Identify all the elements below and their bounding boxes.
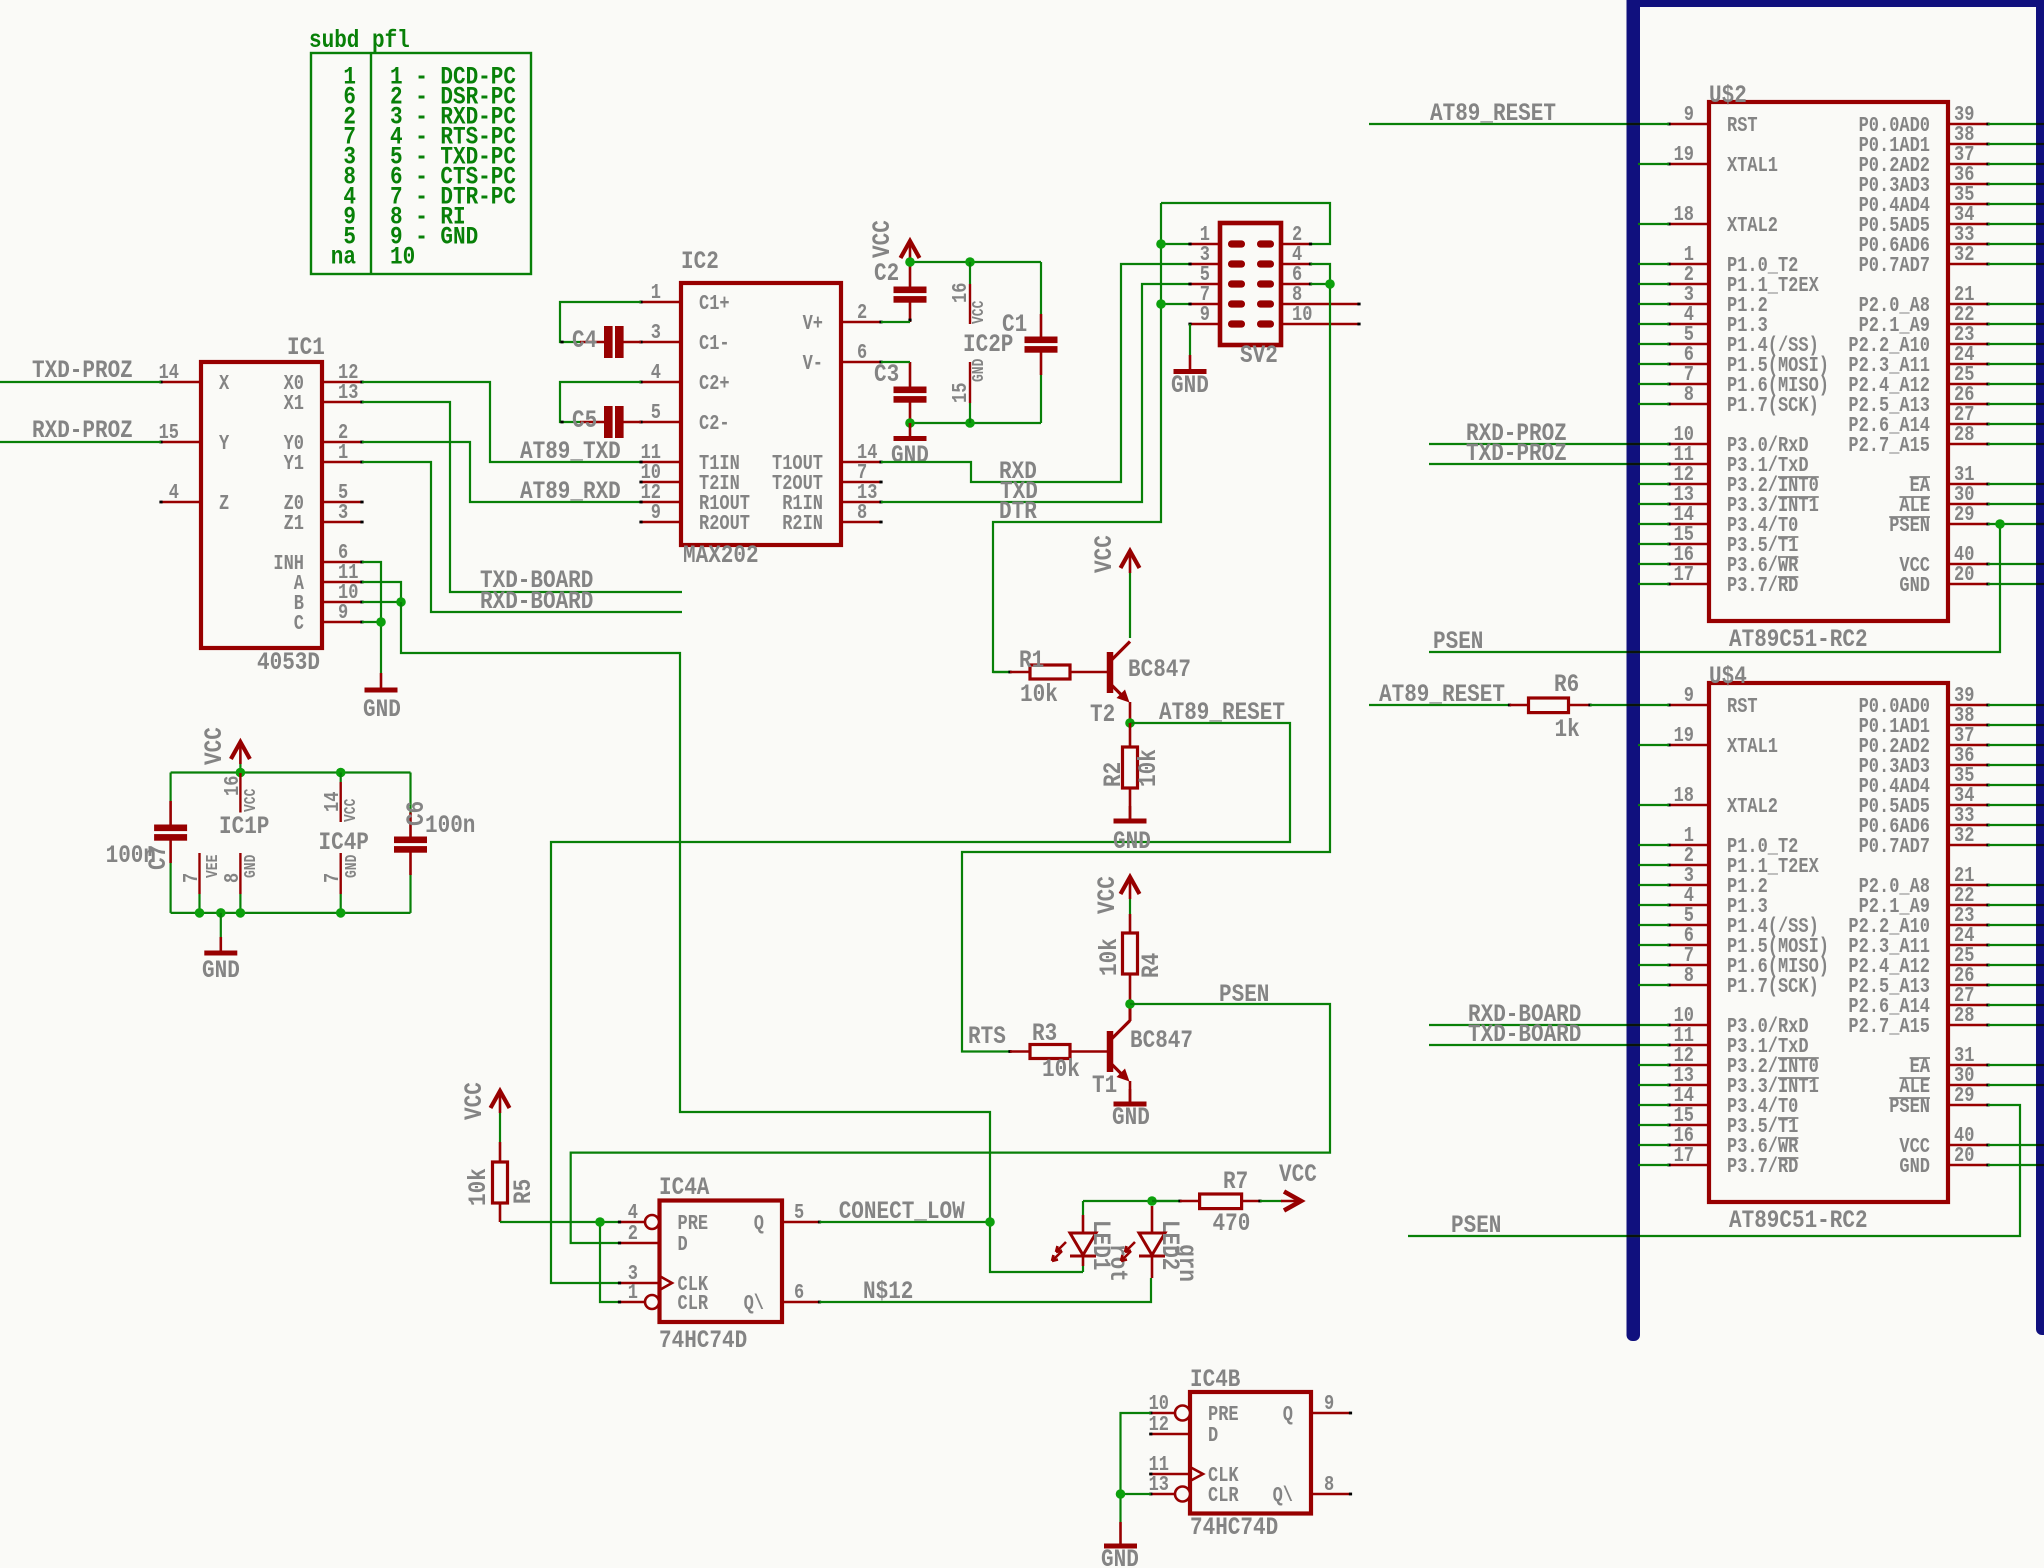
svg-text:C1-: C1- <box>699 331 730 355</box>
U$2 pin 36 (P0.3AD3) stub <box>1859 162 1990 197</box>
svg-text:4053D: 4053D <box>257 648 320 676</box>
svg-text:74HC74D: 74HC74D <box>659 1326 747 1354</box>
junction VCC rail IC1P pin16 <box>236 768 246 778</box>
net N$12 wire IC4A Q\ to LED2 <box>820 1278 1152 1302</box>
IC1 pin 15 (Y) stub <box>159 420 230 455</box>
svg-text:100n: 100n <box>425 811 475 839</box>
svg-text:20: 20 <box>1954 1143 1974 1167</box>
junction IC4B CLR ground <box>1116 1489 1126 1499</box>
U$2 pin 19 (XTAL1) stub <box>1667 142 1778 177</box>
U$2 pin 24 (P2.3_A11) stub <box>1848 342 1989 377</box>
svg-text:10k: 10k <box>464 1168 492 1206</box>
svg-text:9: 9 <box>338 600 348 624</box>
svg-text:SV2: SV2 <box>1240 341 1278 369</box>
net RXD-BOARD wire from IC1 Y1 <box>362 462 682 616</box>
U$2 pin 18 (XTAL2) stub <box>1667 202 1778 237</box>
wire frame to U$4 pin row <box>1638 804 1669 806</box>
wire U$2 pin 37 to frame <box>1988 163 2037 165</box>
U$2 pin 32 (P0.7AD7) stub <box>1859 242 1990 277</box>
U$4 pin 15 (P3.5/T1) stub <box>1667 1103 1798 1138</box>
U$2 pin 12 (P3.2/INT0) stub <box>1667 462 1818 497</box>
frame border top bar <box>1627 0 2044 7</box>
U$4 pin 19 (XTAL1) stub <box>1667 723 1778 758</box>
capacitor C1 decoupling <box>1002 262 1058 423</box>
svg-text:7: 7 <box>320 873 344 883</box>
svg-text:15: 15 <box>159 420 179 444</box>
net label AT89_RESET at T2 <box>1159 698 1285 726</box>
svg-text:AT89_TXD: AT89_TXD <box>520 437 621 465</box>
svg-text:IC4B: IC4B <box>1190 1365 1240 1393</box>
U$4 pin 20 (GND) stub <box>1899 1143 1989 1178</box>
U$4 pin 38 (P0.1AD1) stub <box>1859 703 1990 738</box>
wire frame to U$4 pin row <box>1638 744 1669 746</box>
U$2 pin 27 (P2.6_A14) stub <box>1848 402 1989 437</box>
wire frame to U$4 pin row <box>1638 1124 1669 1126</box>
table row na | 10 <box>331 243 415 271</box>
IC2P name label <box>963 330 1013 358</box>
U$2 pin 22 (P2.1_A9) stub <box>1859 302 1990 337</box>
net TXD-BOARD wire from IC1 X1 <box>362 402 682 595</box>
svg-text:VCC: VCC <box>1090 535 1118 573</box>
SV2 pin 4 stub <box>1281 242 1312 266</box>
ground symbol below R2 <box>1113 806 1151 856</box>
svg-text:Q\: Q\ <box>744 1291 764 1315</box>
svg-text:C: C <box>294 611 304 635</box>
capacitor C6 decoupling <box>394 773 475 913</box>
svg-text:XTAL1: XTAL1 <box>1727 734 1778 758</box>
IC2 pin 12 (R1OUT) stub <box>639 480 750 515</box>
ground symbol below SV2 <box>1171 355 1209 400</box>
svg-text:17: 17 <box>1674 1143 1694 1167</box>
svg-text:17: 17 <box>1674 562 1694 586</box>
ground symbol below IC4B <box>1101 1522 1139 1568</box>
U$4 pin 3 (P1.2) stub <box>1667 863 1767 898</box>
svg-text:CONECT_LOW: CONECT_LOW <box>839 1197 965 1225</box>
wire U$4 pin 34 to frame <box>1988 804 2037 806</box>
U$4 pin 4 (P1.3) stub <box>1667 883 1767 918</box>
svg-text:T2: T2 <box>1090 700 1115 728</box>
svg-text:14: 14 <box>320 791 344 812</box>
net VCC arrow right of R7 <box>1279 1160 1317 1210</box>
svg-text:XTAL2: XTAL2 <box>1727 794 1778 818</box>
U$4 pin 34 (P0.5AD5) stub <box>1859 783 1990 818</box>
SV2 pin 10 stub <box>1281 302 1361 326</box>
junction GND rail pin8 <box>236 908 246 918</box>
svg-text:5: 5 <box>794 1200 804 1224</box>
svg-text:3: 3 <box>651 320 661 344</box>
wire U$4 pin 23 to frame <box>1988 924 2037 926</box>
wire U$4 pin 32 to frame <box>1988 844 2037 846</box>
wire U$2 pin 40 to frame <box>1988 563 2037 565</box>
svg-text:P1.7(SCK): P1.7(SCK) <box>1727 393 1819 417</box>
svg-text:3: 3 <box>338 500 348 524</box>
svg-text:IC1: IC1 <box>287 333 325 361</box>
U$4 pin 40 (VCC) stub <box>1899 1123 1989 1158</box>
U$4 pin 8 (P1.7(SCK)) stub <box>1667 963 1818 998</box>
IC2 pin 8 (R2IN) stub <box>782 500 882 535</box>
svg-text:Q\: Q\ <box>1273 1483 1293 1507</box>
IC2 pin 7 (T2OUT) stub <box>772 460 883 495</box>
net TXD-PROZ wire at U$2 <box>1429 439 1669 467</box>
net VCC arrow above R4 <box>1093 876 1139 914</box>
LED anode rail wire <box>1083 1201 1180 1215</box>
wire U$4 pin 30 to frame <box>1988 1084 2037 1086</box>
junction CONECT_LOW at LED branch <box>985 1217 995 1227</box>
capacitor C7 decoupling <box>106 773 188 913</box>
U$4 pin 21 (P2.0_A8) stub <box>1859 863 1990 898</box>
U$4 pin 24 (P2.3_A11) stub <box>1848 923 1989 958</box>
svg-text:XTAL1: XTAL1 <box>1727 153 1778 177</box>
wire U$4 pin 37 to frame <box>1988 744 2037 746</box>
capacitor C5 <box>560 406 641 438</box>
wire R5 to IC4A PRE and CLR <box>500 1222 620 1302</box>
svg-text:19: 19 <box>1674 723 1694 747</box>
wire frame to U$4 pin row <box>1638 944 1669 946</box>
wire U$4 pin 40 to frame <box>1988 1144 2037 1146</box>
svg-text:R2OUT: R2OUT <box>699 511 750 535</box>
junction GND rail at IC2P pin 15 <box>965 418 975 428</box>
IC1P pin 7 VEE stub <box>179 853 222 913</box>
svg-text:GND: GND <box>1899 1154 1930 1178</box>
junction LED2 anode R7 <box>1147 1196 1157 1206</box>
svg-text:32: 32 <box>1954 823 1974 847</box>
svg-text:29: 29 <box>1954 1083 1974 1107</box>
VCC rail wire IC1P IC4P <box>171 764 411 773</box>
svg-text:Z: Z <box>219 491 229 515</box>
svg-text:12: 12 <box>1149 1412 1169 1436</box>
svg-text:1k: 1k <box>1555 715 1580 743</box>
resistor R4 pullup <box>1095 899 1165 1004</box>
svg-text:D: D <box>678 1232 688 1256</box>
wire IC4B PRE CLR tied to ground <box>1121 1413 1151 1522</box>
IC4A pin 1 CLR with bubble <box>618 1280 708 1315</box>
svg-text:9: 9 <box>1684 683 1694 707</box>
wire frame to U$4 pin row <box>1638 1164 1669 1166</box>
svg-text:R1: R1 <box>1019 646 1044 674</box>
junction VCC rail IC4P pin14 <box>336 768 346 778</box>
ground symbol below T1 <box>1112 1089 1150 1132</box>
svg-text:9: 9 <box>1684 102 1694 126</box>
LED2 green <box>1121 1206 1201 1282</box>
IC2 pin 4 (C2+) stub <box>639 360 729 395</box>
U$2 name label <box>1709 81 1747 109</box>
svg-text:6: 6 <box>794 1280 804 1304</box>
IC4A pin 3 CLK with wedge <box>618 1261 708 1296</box>
wire VCC to T2 collector <box>1129 573 1131 638</box>
IC2 pin 10 (T2IN) stub <box>639 460 739 495</box>
net PSEN wire from U$2 pin 29 <box>1429 524 2037 656</box>
U$4 pin 12 (P3.2/INT0) stub <box>1667 1043 1818 1078</box>
U$4 pin 37 (P0.2AD2) stub <box>1859 723 1990 758</box>
svg-text:IC1P: IC1P <box>219 812 269 840</box>
U$2 pin 16 (P3.6/WR) stub <box>1667 542 1798 577</box>
svg-text:VCC: VCC <box>868 220 896 258</box>
svg-text:IC4A: IC4A <box>659 1173 709 1201</box>
svg-text:8: 8 <box>857 500 867 524</box>
U$4 value AT89C51-RC2 <box>1729 1206 1868 1234</box>
wire U$4 pin 20 to frame <box>1988 1164 2037 1166</box>
svg-text:TXD-BOARD: TXD-BOARD <box>1468 1020 1581 1048</box>
wire IC1 INH and C to ground <box>362 562 381 673</box>
wire U$2 pin 38 to frame <box>1988 143 2037 145</box>
net label N$12 <box>863 1277 913 1305</box>
U$2 pin 35 (P0.4AD4) stub <box>1859 182 1990 217</box>
resistor R1 base resistor <box>993 646 1107 708</box>
U$4 pin 27 (P2.6_A14) stub <box>1848 983 1989 1018</box>
capacitor C4 <box>560 326 641 358</box>
svg-text:8: 8 <box>1684 382 1694 406</box>
capacitor C2 <box>874 259 927 322</box>
IC4A pin 2 D <box>618 1221 688 1256</box>
wire IC4A Q to CONECT_LOW junction <box>820 1221 991 1223</box>
junction at IC1 pin C <box>376 617 386 627</box>
svg-text:18: 18 <box>1674 202 1694 226</box>
wire frame to U$2 pin row <box>1638 283 1669 285</box>
svg-text:Y: Y <box>219 431 229 455</box>
wire U$4 pin 35 to frame <box>1988 784 2037 786</box>
wire frame to U$2 pin row <box>1638 163 1669 165</box>
SV2 pin 1 stub <box>1188 222 1220 246</box>
wire frame to U$2 pin row <box>1638 383 1669 385</box>
wire U$4 pin 33 to frame <box>1988 824 2037 826</box>
U$2 pin 5 (P1.4(/SS)) stub <box>1667 322 1818 357</box>
svg-text:V+: V+ <box>803 311 823 335</box>
IC2 name label <box>681 247 719 275</box>
wire IC2 R1IN pin13 to SV2 pin5 (TXD) <box>881 284 1190 502</box>
net RXD-BOARD wire at U$4 <box>1429 1000 1669 1028</box>
svg-text:C5: C5 <box>572 406 597 434</box>
svg-text:RXD-BOARD: RXD-BOARD <box>480 587 593 615</box>
svg-text:V-: V- <box>803 351 823 375</box>
svg-text:Q: Q <box>1283 1402 1293 1426</box>
IC1 pin 1 (Y1) stub <box>284 440 364 475</box>
U$4 pin 9 (RST) stub <box>1667 683 1757 718</box>
svg-text:16: 16 <box>220 776 244 796</box>
wire U$2 pin 30 to frame <box>1988 503 2037 505</box>
junction VCC rail at C2 <box>905 257 915 267</box>
wire frame to U$2 pin row <box>1638 563 1669 565</box>
junction T1 collector R4 PSEN <box>1125 999 1135 1009</box>
svg-text:PSEN: PSEN <box>1433 627 1483 655</box>
table row 1 | 1 - DCD-PC <box>343 63 516 91</box>
wire U$2 pin 28 to frame <box>1988 443 2037 445</box>
svg-text:VCC: VCC <box>200 727 228 765</box>
transistor T2 BC847 <box>1090 642 1191 729</box>
U$4 pin 13 (P3.3/INT1) stub <box>1667 1063 1818 1098</box>
SV2 pin 9 stub <box>1188 302 1220 326</box>
wire frame to U$2 pin row <box>1638 263 1669 265</box>
LED1 red <box>1052 1215 1132 1282</box>
svg-text:2: 2 <box>628 1221 638 1245</box>
svg-text:RST: RST <box>1727 113 1758 137</box>
U$4 pin 32 (P0.7AD7) stub <box>1859 823 1990 858</box>
svg-text:4: 4 <box>169 480 179 504</box>
net label RXD <box>999 457 1037 485</box>
U$2 pin 33 (P0.6AD6) stub <box>1859 222 1990 257</box>
svg-text:GND: GND <box>344 855 362 878</box>
wire U$4 pin 27 to frame <box>1988 1004 2037 1006</box>
U$2 pin 1 (P1.0_T2) stub <box>1667 242 1798 277</box>
svg-text:8: 8 <box>1324 1472 1334 1496</box>
wire U$4 pin 22 to frame <box>1988 904 2037 906</box>
svg-text:subd pfl: subd pfl <box>309 26 410 54</box>
IC1 pin 14 (X) stub <box>159 360 230 395</box>
junction SV2 pin6 <box>1325 279 1335 289</box>
ground symbol below IC1 <box>363 673 401 724</box>
table row 5 | 9 - GND <box>343 223 478 251</box>
svg-text:15: 15 <box>948 383 972 403</box>
analog mux IC1 4053D body <box>201 362 322 648</box>
svg-text:GND: GND <box>363 695 401 723</box>
wire U$4 pin 25 to frame <box>1988 964 2037 966</box>
IC2P power part pin 16 VCC <box>948 262 988 324</box>
svg-text:1: 1 <box>651 280 661 304</box>
net label TXD <box>1000 477 1038 505</box>
IC2 pin 13 (R1IN) stub <box>782 480 882 515</box>
net PSEN wire from U$4 pin 29 <box>1408 1105 2020 1240</box>
svg-text:R3: R3 <box>1032 1019 1057 1047</box>
IC2 value MAX202 <box>683 541 759 569</box>
svg-text:10k: 10k <box>1134 749 1162 787</box>
flip-flop IC4B 74HC74D body <box>1190 1392 1311 1514</box>
junction GND rail gnd tap <box>216 908 226 918</box>
net RTS wire SV2 pins 4,6 to R3 <box>962 264 1330 1052</box>
svg-text:AT89_RESET: AT89_RESET <box>1159 698 1285 726</box>
U$4 pin 22 (P2.1_A9) stub <box>1859 883 1990 918</box>
net VCC arrow above IC1P <box>200 727 250 765</box>
U$4 pin 18 (XTAL2) stub <box>1667 783 1778 818</box>
svg-text:8: 8 <box>220 873 244 883</box>
wire T2 emitter to junction <box>1129 702 1132 723</box>
svg-text:C7: C7 <box>144 845 172 870</box>
wire frame to U$2 pin row <box>1638 403 1669 405</box>
net RXD-PROZ wire to IC1 pin 15 <box>0 416 161 444</box>
table row 3 | 5 - TXD-PC <box>343 143 516 171</box>
svg-text:X: X <box>219 371 229 395</box>
junction R5 PRE CLR <box>595 1217 605 1227</box>
svg-text:R4: R4 <box>1137 953 1165 978</box>
svg-text:Y1: Y1 <box>284 451 304 475</box>
svg-text:grn: grn <box>1172 1244 1200 1282</box>
U$4 pin 16 (P3.6/WR) stub <box>1667 1123 1798 1158</box>
wire IC2 V- pin6 to C3 <box>881 361 910 363</box>
wire frame to U$4 pin row <box>1638 984 1669 986</box>
wire U$2 pin 36 to frame <box>1988 183 2037 185</box>
IC4A name label <box>659 1173 709 1201</box>
junction at IC1 pin B <box>396 597 406 607</box>
net label PSEN at T1 <box>1219 980 1269 1008</box>
U$4 pin 23 (P2.2_A10) stub <box>1848 903 1989 938</box>
svg-text:VCC: VCC <box>1093 876 1121 914</box>
flip-flop IC4A 74HC74D body <box>660 1201 783 1323</box>
table row 2 | 3 - RXD-PC <box>343 103 516 131</box>
IC4P name label <box>319 828 369 856</box>
net TXD-PROZ wire to IC1 pin 14 <box>0 356 161 384</box>
svg-text:GND: GND <box>243 855 261 878</box>
IC1 pin 2 (Y0) stub <box>284 420 364 455</box>
svg-text:D: D <box>1208 1423 1218 1447</box>
ground symbol below power rail <box>202 937 240 985</box>
IC4A pin 6 Q\ <box>744 1280 821 1315</box>
IC1 pin 3 (Z1) stub <box>284 500 364 535</box>
IC1P pin 8 GND stub <box>220 853 260 913</box>
svg-text:VCC: VCC <box>243 789 261 812</box>
svg-text:C4: C4 <box>572 326 597 354</box>
svg-text:AT89_RESET: AT89_RESET <box>1430 99 1556 127</box>
svg-text:16: 16 <box>948 283 972 303</box>
U$4 pin 26 (P2.5_A13) stub <box>1848 963 1989 998</box>
IC1 pin 13 (X1) stub <box>284 380 364 415</box>
svg-text:Q: Q <box>754 1211 764 1235</box>
wire U$2 pin 34 to frame <box>1988 223 2037 225</box>
U$2 pin 34 (P0.5AD5) stub <box>1859 202 1990 237</box>
U$2 pin 25 (P2.4_A12) stub <box>1848 362 1989 397</box>
resistor R3 base resistor <box>1008 1019 1107 1083</box>
U$2 pin 26 (P2.5_A13) stub <box>1848 382 1989 417</box>
svg-text:N$12: N$12 <box>863 1277 913 1305</box>
svg-text:U$2: U$2 <box>1709 81 1747 109</box>
table row 9 | 8 - RI <box>343 203 465 231</box>
svg-text:GND: GND <box>1113 827 1151 855</box>
svg-text:IC4P: IC4P <box>319 828 369 856</box>
wire U$2 pin 24 to frame <box>1988 363 2037 365</box>
svg-text:TXD-PROZ: TXD-PROZ <box>1466 439 1567 467</box>
U$4 pin 28 (P2.7_A15) stub <box>1848 1003 1989 1038</box>
U$4 pin 30 (ALE) stub <box>1899 1063 1989 1098</box>
IC2 pin 3 (C1-) stub <box>639 320 729 355</box>
wire LED1 cathode <box>1082 1266 1084 1272</box>
IC4B pin 13 CLR with bubble <box>1149 1472 1239 1507</box>
wire U$4 pin 38 to frame <box>1988 724 2037 726</box>
wire frame to U$4 pin row <box>1638 844 1669 846</box>
junction SV2 pin1 <box>1156 239 1166 249</box>
svg-text:GND: GND <box>1101 1545 1139 1568</box>
U$4 name label <box>1709 662 1747 690</box>
U$4 pin 36 (P0.3AD3) stub <box>1859 743 1990 778</box>
wire U$2 pin 25 to frame <box>1988 383 2037 385</box>
wire frame to U$2 pin row <box>1638 343 1669 345</box>
IC1P name label <box>219 812 269 840</box>
IC4B pin 11 CLK with wedge <box>1149 1452 1239 1487</box>
svg-text:BC847: BC847 <box>1128 655 1191 683</box>
svg-text:VCC: VCC <box>971 301 989 324</box>
U$4 pin 7 (P1.6(MISO)) stub <box>1667 943 1829 978</box>
wire frame to U$2 pin row <box>1638 543 1669 545</box>
wire frame to U$4 pin row <box>1638 904 1669 906</box>
svg-text:18: 18 <box>1674 783 1694 807</box>
svg-text:AT89C51-RC2: AT89C51-RC2 <box>1729 625 1868 653</box>
table row 6 | 2 - DSR-PC <box>343 83 516 111</box>
U$4 pin 10 (P3.0/RxD) stub <box>1667 1003 1808 1038</box>
svg-text:6: 6 <box>857 340 867 364</box>
svg-text:10k: 10k <box>1095 938 1123 976</box>
SV2 pin 5 stub <box>1188 262 1220 286</box>
wire frame to U$2 pin row <box>1638 503 1669 505</box>
U$4 pin 39 (P0.0AD0) stub <box>1859 683 1990 718</box>
wire U$2 pin 32 to frame <box>1988 263 2037 265</box>
GND rail wire below IC2P <box>910 422 1041 424</box>
svg-text:AT89_RESET: AT89_RESET <box>1379 680 1505 708</box>
svg-text:PSEN: PSEN <box>1219 980 1269 1008</box>
wire U$4 pin 21 to frame <box>1988 884 2037 886</box>
IC2 pin 6 (V-) stub <box>803 340 883 375</box>
svg-text:P2.7_A15: P2.7_A15 <box>1848 1014 1930 1038</box>
U$4 pin 1 (P1.0_T2) stub <box>1667 823 1798 858</box>
wire T1 emitter to ground <box>1129 1081 1132 1103</box>
svg-text:AT89C51-RC2: AT89C51-RC2 <box>1729 1206 1868 1234</box>
IC4B pin 8 Q\ <box>1273 1472 1352 1507</box>
svg-text:470: 470 <box>1213 1209 1251 1237</box>
